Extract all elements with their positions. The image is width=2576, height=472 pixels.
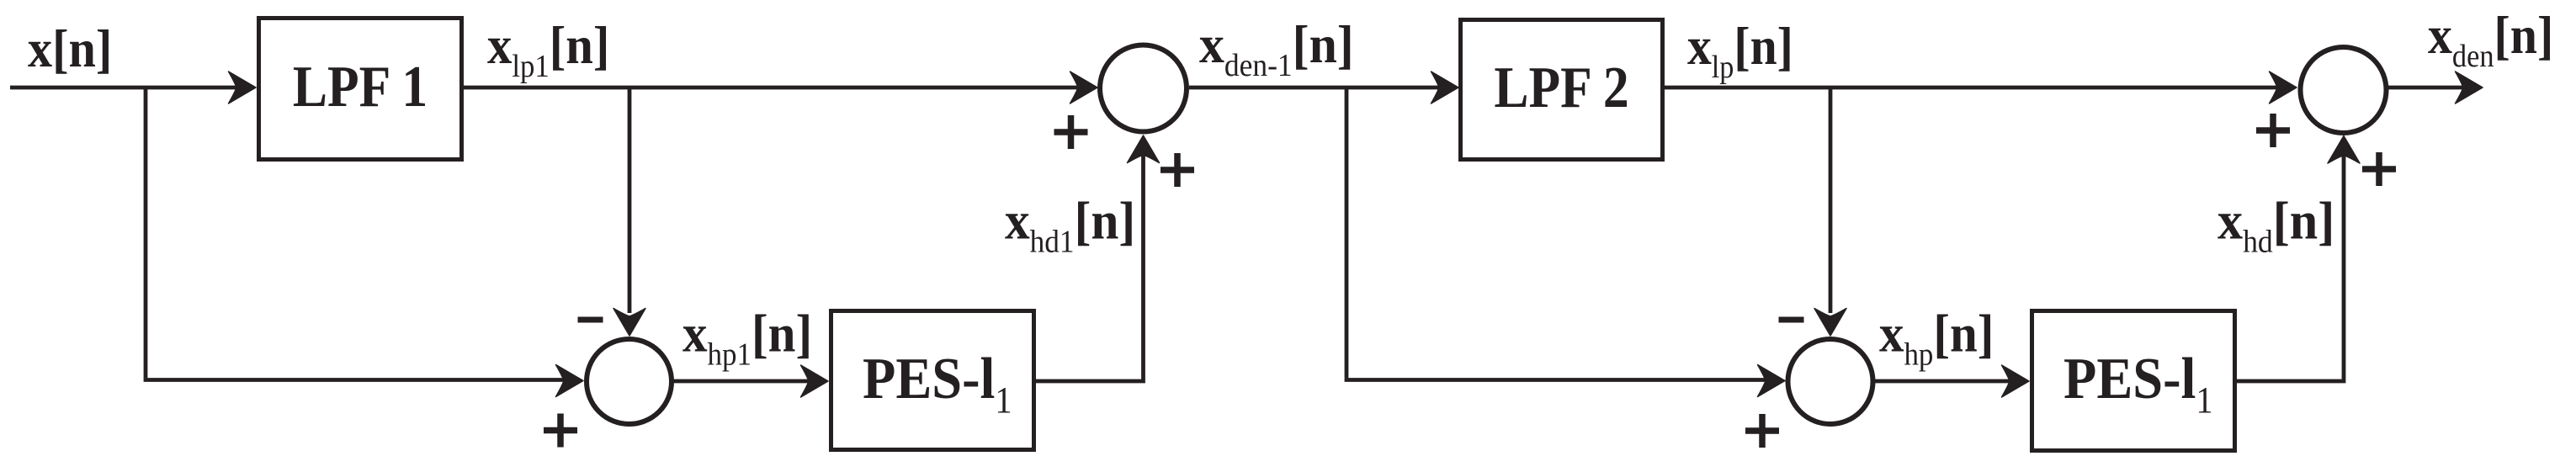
arrow into summer A1 xyxy=(1070,72,1098,103)
svg-text:LPF 2: LPF 2 xyxy=(1494,55,1628,120)
arrow into LPF 1 xyxy=(229,72,257,103)
svg-text:xlp1[n]: xlp1[n] xyxy=(487,16,609,84)
svg-text:x[n]: x[n] xyxy=(28,19,112,79)
arrow up into summer A1 xyxy=(1128,135,1160,163)
svg-text:xhp1[n]: xhp1[n] xyxy=(683,304,812,371)
summer S1 lower left xyxy=(587,339,672,424)
plus sign right of riser 1 xyxy=(1161,153,1194,187)
arrow into PES block 1 xyxy=(801,365,829,397)
arrow down into summer S2 xyxy=(1814,309,1846,337)
svg-text:xhp[n]: xhp[n] xyxy=(1879,304,1994,372)
svg-text:xhd[n]: xhd[n] xyxy=(2217,192,2334,259)
wire: PES2 output up to summer A2 xyxy=(2237,156,2344,381)
arrow into PES block 2 xyxy=(2002,365,2030,397)
wire: S2 to PES block 2 xyxy=(1872,379,2016,384)
plus sign left of summer A2 xyxy=(2256,114,2290,147)
block LPF 2 xyxy=(1461,20,1663,160)
block PES-l1 second xyxy=(2032,311,2235,451)
plus sign at S2 xyxy=(1745,414,1779,448)
arrow into LPF 2 xyxy=(1431,72,1459,103)
wire: branch down from LPF2 output xyxy=(1829,88,1833,313)
wire: final output xyxy=(2388,86,2469,90)
wire: lower feed to summer S1 xyxy=(144,378,572,382)
svg-text:xlp[n]: xlp[n] xyxy=(1687,17,1793,84)
arrow down into summer S1 xyxy=(613,309,645,337)
wire: A1 output to LPF 2 xyxy=(1189,86,1445,90)
plus sign right of riser 2 xyxy=(2362,152,2396,186)
block LPF 1 xyxy=(259,19,462,160)
wire: lower feed to summer S2 xyxy=(1345,378,1774,382)
wire: S1 to PES block 1 xyxy=(672,379,815,384)
block PES-l1 first xyxy=(831,311,1034,450)
svg-text:PES-l1: PES-l1 xyxy=(863,346,1012,422)
wire: branch down from LPF1 output xyxy=(628,88,632,313)
plus sign left of summer A1 xyxy=(1054,115,1088,149)
wire: LPF1 output to summer A1 xyxy=(464,86,1084,90)
summer S2 lower right xyxy=(1788,339,1873,424)
svg-text:LPF 1: LPF 1 xyxy=(293,54,428,119)
plus sign at S1 xyxy=(544,414,577,448)
arrow output x_den[n] xyxy=(2456,72,2483,103)
wire: PES1 output up to summer A1 xyxy=(1036,156,1144,381)
arrow into summer S1 xyxy=(556,365,584,397)
arrow into summer A2 xyxy=(2270,72,2297,103)
svg-text:PES-l1: PES-l1 xyxy=(2063,346,2213,422)
minus sign at S1 xyxy=(578,317,603,323)
summer A2 upper right xyxy=(2301,47,2387,133)
wire: input x[n] horizontal xyxy=(10,86,242,90)
wire: LPF2 output to summer A2 xyxy=(1665,86,2283,90)
wire: branch down from A1 output junction xyxy=(1345,88,1349,378)
arrow up into summer A2 xyxy=(2328,136,2360,164)
wire: branch down from input junction xyxy=(144,88,148,378)
svg-text:xden-1[n]: xden-1[n] xyxy=(1199,15,1354,82)
summer A1 upper middle xyxy=(1100,45,1187,132)
svg-text:xhd1[n]: xhd1[n] xyxy=(1005,192,1135,259)
svg-text:xden[n]: xden[n] xyxy=(2428,6,2553,73)
minus sign at S2 xyxy=(1779,317,1804,323)
arrow into summer S2 xyxy=(1758,365,1786,397)
